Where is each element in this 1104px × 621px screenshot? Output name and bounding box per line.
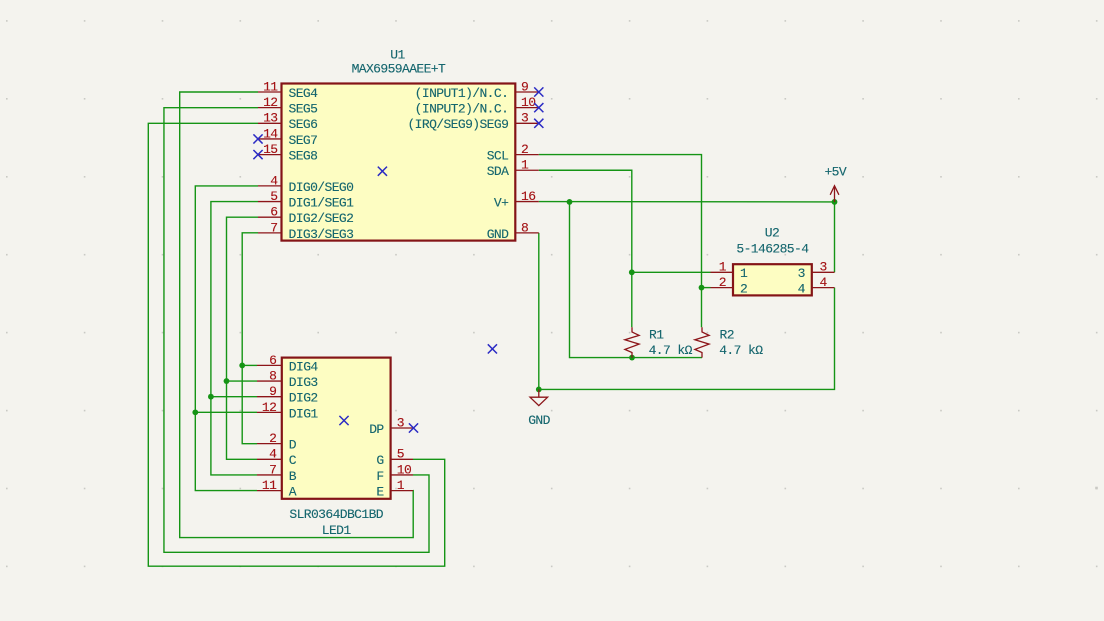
U1 pin 6 (DIG2/SEG2) — [258, 205, 353, 227]
junction DIG1/DIG2 — [208, 394, 214, 400]
wire net DIG3/SEG3 -> LED DIG4 / D — [242, 233, 258, 444]
svg-text:DP: DP — [369, 422, 384, 437]
svg-text:DIG3/SEG3: DIG3/SEG3 — [289, 227, 354, 242]
svg-text:8: 8 — [521, 220, 528, 235]
svg-text:3: 3 — [820, 260, 827, 275]
svg-text:2: 2 — [269, 431, 276, 446]
U2 pin 1 — [711, 260, 749, 282]
svg-text:SEG4: SEG4 — [289, 86, 319, 101]
wire net SDA -> U2 pin1 / R1 — [539, 170, 632, 327]
wire branch DIG1 -> LED DIG2 — [211, 396, 257, 398]
wire +5V down to U2 pin 3 — [834, 202, 836, 272]
svg-text:1: 1 — [397, 478, 405, 493]
svg-text:SEG7: SEG7 — [289, 133, 318, 148]
U1 pin 12 (SEG5) — [258, 95, 317, 117]
resistor R1 — [625, 327, 693, 358]
U1 pin 4 (DIG0/SEG0) — [258, 173, 353, 195]
svg-text:1: 1 — [740, 266, 748, 281]
power symbol +5V — [824, 165, 846, 202]
junction DIG2/DIG3 — [224, 378, 230, 384]
wire net V+ -> +5V — [539, 201, 835, 203]
svg-text:A: A — [289, 485, 297, 500]
U2 pin 4 — [798, 275, 835, 297]
IC U1 body — [282, 84, 516, 241]
svg-text:+5V: +5V — [824, 165, 846, 180]
svg-text:4: 4 — [270, 173, 278, 188]
junction +5V — [832, 199, 838, 205]
svg-text:DIG2: DIG2 — [289, 391, 318, 406]
svg-text:SEG8: SEG8 — [289, 149, 318, 164]
svg-text:14: 14 — [263, 126, 278, 141]
wire net DIG1/SEG1 -> LED DIG2 / B — [211, 202, 258, 475]
svg-text:2: 2 — [740, 282, 747, 297]
svg-text:10: 10 — [521, 95, 535, 110]
connector U2 body — [733, 264, 812, 295]
svg-text:2: 2 — [521, 142, 528, 157]
svg-text:2: 2 — [719, 275, 726, 290]
LED1 pin 4 (C) — [257, 447, 297, 469]
wire net SEG4 -> LED E — [180, 92, 414, 538]
U1 pin 1 (SDA) — [487, 158, 539, 180]
junction DIG0/DIG1 — [192, 409, 198, 415]
svg-text:LED1: LED1 — [322, 523, 352, 538]
svg-text:(INPUT1)/N.C.: (INPUT1)/N.C. — [415, 86, 509, 101]
wire net SCL -> U2 pin2 / R2 — [539, 155, 702, 328]
LED1 stray no-connect marker — [339, 416, 348, 425]
svg-text:SEG5: SEG5 — [289, 102, 318, 117]
LED1 pin 9 (DIG2) — [257, 384, 318, 406]
wire net SEG5 -> LED F — [164, 108, 429, 553]
U1 pin 13 (SEG6) — [258, 111, 317, 133]
wire branch DIG0 -> LED DIG1 — [195, 411, 257, 413]
wire net SEG6 -> LED G — [148, 123, 444, 566]
svg-text:4.7 kΩ: 4.7 kΩ — [649, 343, 693, 358]
U1 pin 11 (SEG4) — [258, 79, 318, 101]
svg-text:4: 4 — [798, 282, 806, 297]
junction SDA/U2.1 — [629, 269, 635, 275]
U1 pin 16 (V+) — [494, 189, 539, 211]
LED1 pin 11 (A) — [257, 478, 297, 500]
svg-text:1: 1 — [719, 260, 727, 275]
svg-text:4: 4 — [820, 275, 828, 290]
wire branch V+ down to resistor bottoms — [570, 202, 703, 358]
stray no-connect marker near GND — [488, 344, 497, 353]
svg-text:SEG6: SEG6 — [289, 117, 318, 132]
svg-text:F: F — [376, 469, 383, 484]
junction V+ branch — [567, 199, 573, 205]
wire branch SDA -> U2 pin 1 — [632, 271, 711, 273]
svg-text:SCL: SCL — [487, 149, 509, 164]
svg-text:MAX6959AAEE+T: MAX6959AAEE+T — [352, 62, 446, 77]
svg-text:B: B — [289, 469, 297, 484]
wire net GND: U1 pin8 down — [538, 233, 540, 390]
svg-text:5: 5 — [270, 189, 277, 204]
svg-text:R1: R1 — [649, 327, 664, 342]
wire net DIG2/SEG2 -> LED DIG3 / C — [227, 217, 259, 459]
svg-text:DIG4: DIG4 — [289, 359, 319, 374]
svg-text:7: 7 — [269, 462, 276, 477]
wire branch SCL -> U2 pin 2 — [702, 287, 711, 289]
wire GND horizontal to U2 pin 4 — [539, 288, 835, 390]
svg-text:(IRQ/SEG9)SEG9: (IRQ/SEG9)SEG9 — [407, 117, 508, 132]
U1 pin 5 (DIG1/SEG1) — [258, 189, 354, 211]
LED1 pin 12 (DIG1) — [257, 400, 318, 422]
svg-text:4: 4 — [269, 447, 277, 462]
svg-text:6: 6 — [269, 353, 276, 368]
svg-text:15: 15 — [263, 142, 277, 157]
svg-text:6: 6 — [270, 205, 277, 220]
LED1 pin 1 (E) — [376, 478, 413, 500]
svg-text:3: 3 — [798, 266, 805, 281]
wire branch DIG2 -> LED DIG3 — [227, 380, 258, 382]
svg-text:5-146285-4: 5-146285-4 — [736, 241, 809, 256]
U1 pin 15 (SEG8) — [253, 142, 317, 164]
U2 pin 3 — [798, 260, 835, 282]
svg-text:5: 5 — [397, 447, 404, 462]
resistor R2 — [695, 327, 763, 358]
svg-text:D: D — [289, 438, 297, 453]
svg-text:11: 11 — [263, 79, 278, 94]
svg-text:13: 13 — [263, 111, 277, 126]
power symbol GND — [528, 389, 550, 428]
U1 pin 8 (GND) — [487, 220, 539, 242]
svg-text:8: 8 — [269, 368, 276, 383]
U1 pin 10 ((INPUT2)/N.C.) — [415, 95, 544, 117]
svg-text:G: G — [376, 453, 383, 468]
junction GND — [536, 387, 542, 393]
svg-text:U1: U1 — [390, 47, 405, 62]
junction R1 bottom — [629, 355, 635, 361]
U1 pin 14 (SEG7) — [253, 126, 317, 148]
U2 pin 2 — [711, 275, 748, 297]
svg-text:12: 12 — [262, 400, 276, 415]
junction DIG3/DIG4 — [239, 363, 245, 369]
svg-text:7: 7 — [270, 220, 277, 235]
svg-text:DIG2/SEG2: DIG2/SEG2 — [289, 211, 354, 226]
svg-text:4.7 kΩ: 4.7 kΩ — [719, 343, 763, 358]
svg-text:(INPUT2)/N.C.: (INPUT2)/N.C. — [415, 102, 509, 117]
wire net DIG0/SEG0 -> LED DIG1 / A — [195, 186, 258, 491]
svg-text:10: 10 — [397, 462, 411, 477]
svg-text:DIG0/SEG0: DIG0/SEG0 — [289, 180, 354, 195]
svg-text:DIG1/SEG1: DIG1/SEG1 — [289, 195, 355, 210]
LED1 pin 6 (DIG4) — [257, 353, 318, 375]
junction SCL/U2.2 — [699, 285, 705, 291]
svg-text:GND: GND — [487, 227, 509, 242]
svg-text:V+: V+ — [494, 195, 509, 210]
U1 pin 2 (SCL) — [487, 142, 539, 164]
svg-text:9: 9 — [269, 384, 276, 399]
U1 pin 9 ((INPUT1)/N.C.) — [415, 79, 544, 101]
U1 pin 7 (DIG3/SEG3) — [258, 220, 353, 242]
LED1 pin 5 (G) — [376, 447, 413, 469]
svg-text:12: 12 — [263, 95, 277, 110]
U1 stray no-connect marker — [378, 167, 387, 176]
svg-text:9: 9 — [521, 79, 528, 94]
svg-text:U2: U2 — [765, 225, 779, 240]
svg-text:3: 3 — [397, 415, 404, 430]
wire branch DIG3 -> LED DIG4 — [242, 364, 257, 366]
svg-text:DIG3: DIG3 — [289, 375, 318, 390]
svg-text:3: 3 — [521, 111, 528, 126]
svg-text:E: E — [376, 485, 384, 500]
svg-text:SDA: SDA — [487, 164, 509, 179]
svg-text:16: 16 — [521, 189, 535, 204]
svg-text:11: 11 — [262, 478, 277, 493]
U1 pin 3 ((IRQ/SEG9)SEG9) — [407, 111, 543, 133]
LED1 pin 3 (DP) — [369, 415, 418, 437]
svg-text:R2: R2 — [720, 327, 734, 342]
LED1 pin 7 (B) — [257, 462, 297, 484]
svg-text:DIG1: DIG1 — [289, 406, 319, 421]
LED1 pin 2 (D) — [257, 431, 297, 453]
svg-text:GND: GND — [528, 413, 550, 428]
svg-text:C: C — [289, 453, 297, 468]
svg-text:SLR0364DBC1BD: SLR0364DBC1BD — [289, 507, 383, 522]
LED1 pin 8 (DIG3) — [257, 368, 318, 390]
LED display LED1 body — [282, 358, 391, 499]
LED1 pin 10 (F) — [376, 462, 413, 484]
svg-text:1: 1 — [521, 158, 529, 173]
